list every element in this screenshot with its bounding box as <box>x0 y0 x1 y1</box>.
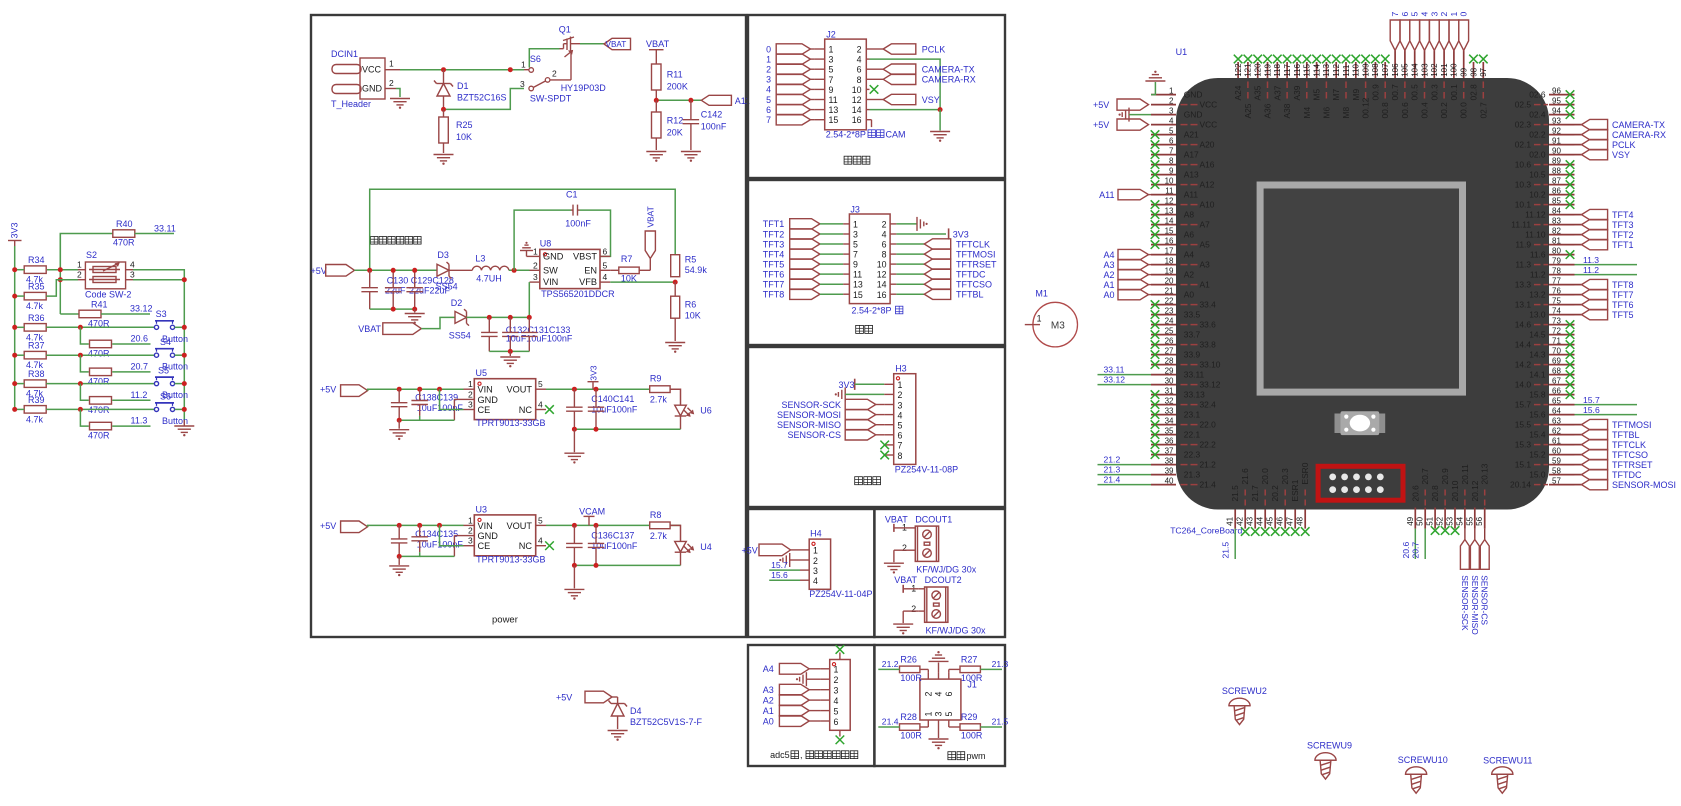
U1 pin 41 (21.5) <box>1226 485 1241 529</box>
U1 pin 59 (15.1) <box>1515 456 1575 469</box>
net flag 5 (J2 pin 11) <box>766 94 815 105</box>
svg-text:2: 2 <box>552 69 557 79</box>
U1 pin 85 (10.1) <box>1515 196 1575 209</box>
net flag +5V (U1 pin4) <box>1093 119 1149 130</box>
svg-text:A5: A5 <box>1200 240 1211 250</box>
svg-text:54.9k: 54.9k <box>685 265 708 275</box>
svg-text:CE: CE <box>478 541 491 551</box>
svg-text:A4: A4 <box>1184 250 1195 260</box>
U1 pin 24 (33.6) <box>1151 316 1216 329</box>
wire R40 right / net 33.11 <box>135 224 176 234</box>
svg-text:116: 116 <box>1293 63 1302 76</box>
net flag TFTCSO <box>896 279 992 290</box>
U1 pin 94 (02.4) <box>1529 106 1574 119</box>
U1 pin 3 (GND) <box>1151 106 1202 119</box>
svg-text:3: 3 <box>468 400 473 410</box>
net flag TFTCLK <box>896 239 990 250</box>
svg-text:80: 80 <box>1552 246 1561 255</box>
U1 pin 51 (20.8) <box>1426 485 1441 535</box>
svg-text:R26: R26 <box>900 654 917 664</box>
svg-text:22.1: 22.1 <box>1184 430 1201 440</box>
svg-text:EN: EN <box>584 265 597 275</box>
svg-text:21.5: 21.5 <box>1221 542 1231 559</box>
svg-text:37: 37 <box>1165 446 1174 455</box>
svg-text:33.10: 33.10 <box>1200 360 1221 370</box>
screw SCREWU11 <box>1483 756 1532 794</box>
svg-text:4.7k: 4.7k <box>26 414 44 424</box>
svg-text:1: 1 <box>853 219 858 229</box>
svg-text:H4: H4 <box>810 529 822 539</box>
no-connect X (bottom) <box>836 736 845 745</box>
U1 pin 101 (00.2) <box>1439 50 1449 118</box>
svg-text:20.10: 20.10 <box>1450 480 1460 501</box>
net flag A11 <box>1099 189 1151 200</box>
svg-text:14.2: 14.2 <box>1515 360 1532 370</box>
net flag VSY <box>870 94 940 105</box>
svg-text:VBAT: VBAT <box>606 40 627 49</box>
net flag 7 (J2 pin 15) <box>766 115 815 126</box>
net flag TFT1 <box>763 219 843 230</box>
ground <box>390 99 410 109</box>
svg-text:10.3: 10.3 <box>1515 180 1532 190</box>
svg-text:3V3: 3V3 <box>839 380 855 390</box>
capacitor C139 100nF <box>411 389 428 416</box>
wire net 20.6 <box>112 334 150 345</box>
svg-text:2: 2 <box>857 45 862 55</box>
svg-text:TFT5: TFT5 <box>1612 310 1634 320</box>
switch S2 Code SW-2 <box>77 250 135 300</box>
U1 pin 48 (ESR0) <box>1296 462 1311 536</box>
connector DCIN1 T_Header <box>331 49 400 109</box>
power net VCAM <box>579 506 605 525</box>
svg-text:TFT3: TFT3 <box>763 239 785 249</box>
svg-text:16: 16 <box>1165 236 1174 245</box>
svg-text:20.9: 20.9 <box>1440 468 1450 485</box>
resistor R45 470R <box>80 409 111 440</box>
svg-text:U3: U3 <box>476 504 488 514</box>
svg-text:97: 97 <box>1479 67 1488 76</box>
svg-text:KF/WJ/DG 30x: KF/WJ/DG 30x <box>926 626 987 636</box>
svg-text:DCOUT1: DCOUT1 <box>915 514 952 524</box>
wire GND pin to cap rail <box>420 536 464 557</box>
U1 pin 73 (14.6) <box>1515 316 1575 329</box>
svg-text:KF/WJ/DG 30x: KF/WJ/DG 30x <box>916 565 977 575</box>
svg-text:32: 32 <box>1165 396 1174 405</box>
capacitor C130 22uF <box>361 270 408 309</box>
svg-text:102: 102 <box>1430 63 1439 77</box>
svg-text:470R: 470R <box>88 376 110 386</box>
resistor R36 <box>24 313 46 343</box>
capacitor C131 10uF <box>502 317 573 351</box>
wire button right <box>175 353 187 358</box>
svg-text:11.3: 11.3 <box>1583 255 1599 265</box>
U1 pin 60 (15.2) <box>1529 446 1574 459</box>
svg-text:VCC: VCC <box>362 65 382 75</box>
net flag A2 <box>763 695 821 706</box>
svg-text:40: 40 <box>1165 476 1174 485</box>
svg-text:14.5: 14.5 <box>1529 330 1546 340</box>
net flag TFTDC <box>1575 469 1642 480</box>
svg-text:5: 5 <box>834 706 839 716</box>
svg-text:20.7: 20.7 <box>1420 468 1430 485</box>
U1 pin 109 (00.12) <box>1361 55 1371 119</box>
connector J3 2.54-2*8P <box>843 204 903 315</box>
U1 pin 43 (21.7) <box>1246 485 1261 536</box>
svg-text:21.4: 21.4 <box>882 717 899 727</box>
svg-text:29: 29 <box>1165 366 1174 375</box>
svg-text:SCREWU9: SCREWU9 <box>1307 740 1352 750</box>
svg-text:A36: A36 <box>1263 103 1273 118</box>
svg-text:122: 122 <box>1234 63 1243 77</box>
svg-text:A0: A0 <box>763 716 774 726</box>
svg-text:GND: GND <box>478 531 499 541</box>
svg-text:02.4: 02.4 <box>1529 110 1546 120</box>
svg-text:13: 13 <box>1165 206 1174 215</box>
wire input caps bottom <box>397 416 420 423</box>
wire net 11.2 <box>1575 265 1638 275</box>
svg-text:114: 114 <box>1312 63 1321 76</box>
pushbutton S4 <box>154 337 188 372</box>
svg-text:103: 103 <box>1420 63 1429 77</box>
resistor R25 10K <box>439 109 473 153</box>
svg-text:20.6: 20.6 <box>1410 485 1420 502</box>
U1 pin 115 (M4) <box>1302 55 1312 119</box>
net flag TFTDC <box>896 269 986 280</box>
screw SCREWU10 <box>1398 755 1448 793</box>
schematic frame: pwm section <box>874 645 1005 766</box>
wire J2 pin16 stub <box>870 120 872 127</box>
U1 pin 78 (11.2) <box>1530 266 1575 279</box>
svg-text:A13: A13 <box>1184 170 1199 180</box>
svg-text:48: 48 <box>1296 516 1305 525</box>
svg-text:111: 111 <box>1342 64 1351 77</box>
svg-text:5: 5 <box>538 379 543 389</box>
wire net 15.6 <box>1575 405 1638 415</box>
U1 pin 107 (00.8) <box>1380 55 1390 119</box>
svg-text:35: 35 <box>1165 426 1174 435</box>
svg-text:67: 67 <box>1552 376 1561 385</box>
svg-text:2.7k: 2.7k <box>650 395 668 405</box>
svg-text:TFT8: TFT8 <box>1612 280 1634 290</box>
svg-text:22: 22 <box>1165 296 1174 305</box>
svg-text:99: 99 <box>1460 67 1469 76</box>
inductor L3 4.7UH <box>472 254 509 284</box>
svg-text:65: 65 <box>1552 396 1561 405</box>
svg-text:A4: A4 <box>763 664 774 674</box>
zener diode D4 BZT52C5V1S-7-F <box>609 697 703 729</box>
svg-text:6: 6 <box>834 717 839 727</box>
wire SW to C1 <box>514 210 571 270</box>
U1 pin 74 (13.0) <box>1529 306 1574 319</box>
resistor R38 <box>24 369 46 399</box>
U1 pin 58 (15.0) <box>1529 466 1574 479</box>
ground <box>681 143 701 162</box>
svg-text:38: 38 <box>1165 456 1174 465</box>
svg-text:4: 4 <box>766 85 771 95</box>
svg-text:PCLK: PCLK <box>922 44 946 54</box>
net flag 0 (U1 pin 99) <box>1459 12 1469 51</box>
svg-text:10uF100nF: 10uF100nF <box>591 405 638 415</box>
svg-text:VFB: VFB <box>579 277 597 287</box>
net flag 7 (U1 pin 106) <box>1390 12 1400 51</box>
svg-text:13.2: 13.2 <box>1529 290 1546 300</box>
svg-text:6: 6 <box>1400 12 1410 17</box>
net flag 2 (U1 pin 101) <box>1439 12 1449 51</box>
schematic frame: DCOUT section <box>874 509 1005 637</box>
net flag TFT8 <box>763 289 843 300</box>
U1 pin 35 (22.1) <box>1151 426 1201 439</box>
U1 pin 39 (21.3) <box>1151 466 1200 479</box>
svg-text:1: 1 <box>766 54 771 64</box>
svg-text:108: 108 <box>1371 63 1380 77</box>
svg-text:72: 72 <box>1552 326 1561 335</box>
program connector graphic (red) <box>1318 466 1403 500</box>
wire S6 pin1 to Q1 source <box>529 49 559 68</box>
svg-text:11.11: 11.11 <box>1511 220 1531 230</box>
svg-text:7: 7 <box>1169 146 1174 155</box>
svg-text:10: 10 <box>877 260 887 270</box>
svg-text:3V3: 3V3 <box>10 222 20 238</box>
svg-text:57: 57 <box>1552 476 1561 485</box>
svg-text:Code SW-2: Code SW-2 <box>85 290 131 300</box>
svg-text:13.1: 13.1 <box>1515 300 1532 310</box>
power net 3V3 (H3 pin1) <box>839 379 885 390</box>
svg-text:20: 20 <box>1165 276 1174 285</box>
svg-text:SCREWU10: SCREWU10 <box>1398 755 1448 765</box>
svg-text:M5: M5 <box>1312 89 1322 101</box>
svg-text:M8: M8 <box>1341 107 1351 119</box>
svg-text:H3: H3 <box>895 364 907 374</box>
U1 pin 4 (VCC) <box>1151 116 1217 129</box>
svg-text:33.11: 33.11 <box>154 224 176 234</box>
svg-text:A17: A17 <box>1184 150 1199 160</box>
schottky diode D3 SS54 <box>436 250 473 292</box>
svg-text:49: 49 <box>1406 516 1415 525</box>
U1 pin 42 (21.6) <box>1236 468 1251 536</box>
regulator U8 TPS565201DDCR <box>530 239 616 300</box>
svg-text:1: 1 <box>813 546 818 556</box>
svg-text:21.3: 21.3 <box>992 659 1009 669</box>
svg-text:11.2: 11.2 <box>1583 265 1599 275</box>
resistor R26 100R <box>878 654 928 683</box>
svg-text:TPRT9013-33GB: TPRT9013-33GB <box>476 554 545 564</box>
svg-text:10K: 10K <box>685 310 701 320</box>
svg-text:VCAM: VCAM <box>579 506 605 516</box>
U1 pin 93 (02.3) <box>1515 116 1575 129</box>
resistor R29 100R <box>949 712 1009 741</box>
U1 pin 100 (00.1) <box>1449 50 1459 100</box>
net flag SENSOR-MOSI <box>1575 479 1677 490</box>
svg-text:3V3: 3V3 <box>953 230 969 240</box>
U1 pin 26 (33.8) <box>1151 336 1216 349</box>
U1 pin 120 (A35) <box>1253 55 1263 101</box>
net flag 3 (J2 pin 7) <box>766 74 815 85</box>
svg-text:+5V: +5V <box>311 266 327 276</box>
U1 pin 84 (11.12) <box>1525 206 1574 219</box>
svg-text:3: 3 <box>934 712 944 717</box>
svg-text:121: 121 <box>1244 63 1253 77</box>
svg-text:4: 4 <box>538 536 543 546</box>
U1 pin 19 (A2) <box>1151 266 1194 279</box>
U1 pin 9 (A13) <box>1151 166 1199 179</box>
U1 pin 8 (A16) <box>1151 156 1215 169</box>
connector J2 2.54-2*8P CAM <box>815 30 906 140</box>
svg-text:4: 4 <box>898 410 903 420</box>
junction <box>58 267 63 272</box>
svg-text:31: 31 <box>1165 386 1174 395</box>
svg-text:A0: A0 <box>1103 290 1114 300</box>
wire J2 pin14 to ground <box>870 107 943 130</box>
schematic frame: H4 section <box>748 509 874 637</box>
svg-text:VBAT: VBAT <box>646 206 656 227</box>
svg-text:S3: S3 <box>156 309 167 319</box>
U1 pin 63 (15.5) <box>1515 416 1575 429</box>
svg-text:12: 12 <box>852 95 862 105</box>
ground <box>174 420 194 436</box>
U1 pin 96 (02.6) <box>1529 86 1574 99</box>
svg-text:10.6: 10.6 <box>1515 160 1532 170</box>
svg-text:A12: A12 <box>1200 180 1215 190</box>
svg-text:A10: A10 <box>1200 200 1215 210</box>
svg-text:CAMERA-TX: CAMERA-TX <box>922 65 975 75</box>
junction <box>58 277 63 282</box>
svg-text:A24: A24 <box>1233 85 1243 100</box>
svg-text:13.0: 13.0 <box>1529 310 1546 320</box>
svg-text:12: 12 <box>877 270 887 280</box>
U1 pin 29 (33.11) <box>1151 366 1204 379</box>
resistor R6 10K <box>671 282 701 341</box>
U1 pin 86 (10.2) <box>1529 186 1574 199</box>
svg-text:33.8: 33.8 <box>1200 340 1217 350</box>
svg-text:33.4: 33.4 <box>1200 300 1217 310</box>
svg-text:33: 33 <box>1165 406 1174 415</box>
svg-text:85: 85 <box>1552 196 1561 205</box>
U1 pin 33 (23.1) <box>1151 406 1201 419</box>
svg-text:TFT1: TFT1 <box>763 219 785 229</box>
svg-text:VBST: VBST <box>573 251 597 261</box>
svg-text:+5V: +5V <box>742 545 758 555</box>
U1 pin 6 (A20) <box>1151 136 1215 149</box>
junction <box>508 67 513 72</box>
svg-text:81: 81 <box>1552 236 1561 245</box>
svg-text:U6: U6 <box>700 406 712 416</box>
svg-text:6: 6 <box>1169 136 1174 145</box>
svg-text:5: 5 <box>853 240 858 250</box>
svg-text:84: 84 <box>1552 206 1561 215</box>
svg-text:CAMERA-RX: CAMERA-RX <box>1612 130 1666 140</box>
net flag SENSOR-MOSI <box>777 409 884 420</box>
svg-text:6: 6 <box>944 692 954 697</box>
svg-text:A37: A37 <box>1272 85 1282 100</box>
svg-text:13: 13 <box>829 105 839 115</box>
wire button right <box>175 325 187 330</box>
U1 pin 30 (33.12) <box>1151 376 1221 389</box>
power net 3V3 (left rail) <box>8 222 22 246</box>
no-connect X (H3 pin7) <box>880 441 889 450</box>
svg-text:66: 66 <box>1552 386 1561 395</box>
svg-text:M7: M7 <box>1331 89 1341 101</box>
U1 pin 23 (33.5) <box>1151 306 1201 319</box>
svg-text:4: 4 <box>834 696 839 706</box>
wire CE tie to +5V <box>440 525 464 545</box>
ground (rotated) <box>917 217 928 231</box>
svg-text:PZ254V-11-04P: PZ254V-11-04P <box>809 589 872 599</box>
svg-text:54: 54 <box>1455 516 1464 525</box>
U1 pin 68 (14.1) <box>1529 366 1574 379</box>
svg-text:470R: 470R <box>88 349 110 359</box>
net flag A1 <box>1103 279 1151 290</box>
wire net 11.3 <box>1575 255 1638 265</box>
svg-text:+5V: +5V <box>556 693 572 703</box>
ground (rotated, U1 pin3) <box>1119 108 1152 122</box>
svg-text:20K: 20K <box>667 128 683 138</box>
svg-text:2: 2 <box>813 556 818 566</box>
svg-text:8: 8 <box>898 451 903 461</box>
svg-text:2: 2 <box>468 389 473 399</box>
svg-text:109: 109 <box>1361 63 1370 77</box>
svg-text:5: 5 <box>1169 126 1174 135</box>
svg-text:5: 5 <box>538 515 543 525</box>
svg-text:D2: D2 <box>451 298 463 308</box>
wire pin2 to ground <box>903 611 919 623</box>
resistor R11 200K <box>652 64 688 100</box>
svg-text:SENSOR-SCK: SENSOR-SCK <box>1460 575 1470 631</box>
net flag 4 (J2 pin 9) <box>766 84 815 95</box>
U1 pin 119 (A36) <box>1263 55 1273 119</box>
svg-text:39: 39 <box>1165 466 1174 475</box>
svg-text:ESR0: ESR0 <box>1300 462 1310 484</box>
no-connect X <box>545 541 554 550</box>
wire right rail down to ground <box>183 280 185 420</box>
resistor R39 <box>24 395 46 425</box>
svg-text:+5V: +5V <box>1093 120 1109 130</box>
svg-text:00.4: 00.4 <box>1420 102 1430 119</box>
U1 pin 45 (20.2) <box>1266 485 1281 536</box>
svg-text:22.2: 22.2 <box>1200 440 1217 450</box>
svg-text:15.0: 15.0 <box>1529 470 1546 480</box>
svg-text:00.6: 00.6 <box>1400 102 1410 119</box>
svg-text:69: 69 <box>1552 356 1561 365</box>
U1 pin 47 (ESR1) <box>1286 479 1301 536</box>
svg-text:33.7: 33.7 <box>1184 330 1201 340</box>
U1 pin 79 (11.3) <box>1515 256 1574 269</box>
svg-text:SW-SPDT: SW-SPDT <box>530 94 572 104</box>
svg-text:A20: A20 <box>1200 140 1215 150</box>
U1 pin 104 (00.5) <box>1410 50 1420 100</box>
wire S2 pin4 to right rail <box>133 270 184 280</box>
svg-text:VIN: VIN <box>478 385 493 395</box>
svg-text:20.8: 20.8 <box>1430 485 1440 502</box>
svg-text:21.7: 21.7 <box>1250 485 1260 502</box>
svg-text:U5: U5 <box>476 368 488 378</box>
U1 pin 54 (20.11) <box>1455 464 1470 529</box>
svg-text:3V3: 3V3 <box>589 365 599 381</box>
U1 pin 5 (A21) <box>1151 126 1199 139</box>
svg-text:U4: U4 <box>700 542 712 552</box>
svg-text:95: 95 <box>1552 96 1561 105</box>
power net 3V3 <box>588 365 599 389</box>
svg-text:70: 70 <box>1552 346 1561 355</box>
U1 pin 28 (33.10) <box>1151 356 1221 369</box>
net flag TFT7 <box>763 279 843 290</box>
U1 pin 57 (20.14) <box>1510 476 1574 489</box>
svg-text:36: 36 <box>1165 436 1174 445</box>
wire R41 / net 33.12 <box>101 304 153 315</box>
capacitor C128 22uF <box>406 268 423 309</box>
svg-text:S2: S2 <box>86 250 97 260</box>
wire VBAT diode to VIN rail <box>467 282 532 320</box>
schematic frame: adc section <box>748 645 874 766</box>
